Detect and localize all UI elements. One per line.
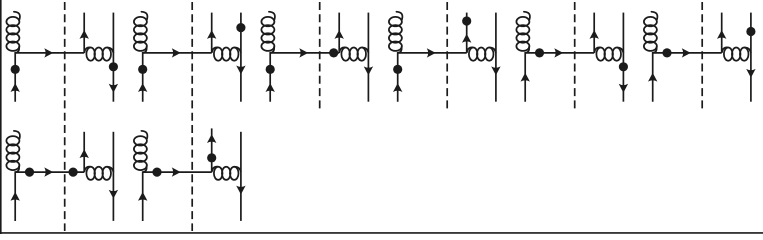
arrow on horizontal quark line D1 bbox=[44, 48, 53, 57]
up arrow on outgoing quark line D3 bbox=[335, 30, 344, 39]
wire: eikonal / Wilson line D1 bbox=[112, 13, 114, 102]
vertex dot on horizontal line after cut D7 bbox=[69, 168, 78, 177]
wire: eikonal / Wilson line D2 bbox=[240, 13, 242, 102]
down arrow on eikonal line D1 bbox=[109, 84, 118, 93]
vertex dot on horizontal quark line D6 bbox=[662, 48, 671, 57]
vertex dot on incoming quark line D1 bbox=[11, 65, 20, 74]
vertex dot on horizontal quark line D8 bbox=[152, 168, 161, 177]
up arrow on outgoing quark line D1 bbox=[80, 30, 89, 39]
gluon coil (left radiated gluon) D1 bbox=[14, 12, 20, 20]
gluon coil (left radiated gluon) D4 bbox=[396, 12, 402, 20]
arrow on horizontal quark line D2 bbox=[172, 48, 181, 57]
up arrow on incoming quark line D3 bbox=[266, 83, 275, 92]
wire: incoming quark line and horizontal quark propagator D1 bbox=[15, 53, 84, 102]
up arrow on outgoing quark line D8 bbox=[207, 134, 216, 143]
arrow on horizontal quark line D3 bbox=[299, 48, 308, 57]
wire: eikonal / Wilson line D8 bbox=[240, 132, 242, 221]
gluon coil (eikonal gluon) D3 bbox=[339, 47, 346, 53]
final-state cut (dashed) D4 bbox=[446, 2, 448, 110]
wire: outgoing quark line (left of cut) D8 bbox=[211, 128, 213, 172]
arrow on horizontal quark line D8 bbox=[172, 167, 181, 176]
figure frame: bottom border bbox=[0, 232, 763, 234]
wire: eikonal / Wilson line D6 bbox=[750, 13, 752, 102]
final-state cut (dashed) D1 bbox=[64, 2, 66, 231]
final-state cut (dashed) D5 bbox=[574, 2, 576, 110]
wire: outgoing quark line (left of cut) D7 bbox=[83, 132, 85, 172]
arrow on horizontal quark line D6 bbox=[682, 48, 691, 57]
wire: incoming quark line and horizontal quark propagator D5 bbox=[525, 53, 594, 102]
wire: incoming quark line and horizontal quark propagator D3 bbox=[270, 53, 339, 102]
up arrow on outgoing quark line D6 bbox=[717, 30, 726, 39]
wire: eikonal / Wilson line D4 bbox=[495, 13, 497, 102]
gluon coil (left radiated gluon) D6 bbox=[651, 12, 657, 20]
wire: eikonal / Wilson line D7 bbox=[112, 132, 114, 221]
gluon coil (eikonal gluon) D4 bbox=[467, 47, 474, 53]
vertex dot on outgoing quark line top D4 bbox=[462, 16, 471, 25]
down arrow on eikonal line D3 bbox=[364, 66, 373, 75]
gluon coil (left radiated gluon) D8 bbox=[141, 131, 147, 139]
arrow on horizontal quark line D5 bbox=[554, 48, 563, 57]
wire: outgoing quark line (left of cut) D6 bbox=[721, 13, 723, 53]
gluon coil (eikonal gluon) D8 bbox=[212, 167, 219, 173]
up arrow on incoming quark line D8 bbox=[138, 192, 147, 201]
up arrow on incoming quark line D4 bbox=[393, 83, 402, 92]
final-state cut (dashed) D6 bbox=[701, 2, 703, 110]
wire: outgoing quark line (left of cut) D2 bbox=[211, 13, 213, 53]
vertex dot on horizontal quark line D7 bbox=[25, 168, 34, 177]
vertex dot on eikonal line D2 bbox=[236, 23, 245, 32]
gluon coil (eikonal gluon) D2 bbox=[212, 47, 219, 53]
wire: eikonal / Wilson line D5 bbox=[622, 13, 624, 102]
down arrow on eikonal line D2 bbox=[236, 66, 245, 75]
gluon coil (eikonal gluon) D7 bbox=[84, 167, 91, 173]
up arrow on outgoing quark line D7 bbox=[80, 149, 89, 158]
vertex dot on incoming quark line D2 bbox=[138, 65, 147, 74]
up arrow on outgoing quark line D4 bbox=[462, 34, 471, 43]
vertex dot on eikonal line D5 bbox=[619, 62, 628, 71]
down arrow on eikonal line D8 bbox=[236, 186, 245, 195]
vertex dot on incoming quark line D3 bbox=[266, 65, 275, 74]
wire: incoming quark line and horizontal quark propagator D4 bbox=[398, 53, 467, 102]
arrow on horizontal quark line D7 bbox=[44, 167, 53, 176]
wire: outgoing quark line (left of cut) D1 bbox=[83, 13, 85, 53]
vertex dot on eikonal line D1 bbox=[109, 62, 118, 71]
wire: incoming quark line and horizontal quark propagator D6 bbox=[653, 53, 722, 102]
gluon coil (left radiated gluon) D5 bbox=[524, 12, 530, 20]
gluon coil (eikonal gluon) D5 bbox=[594, 47, 601, 53]
vertex dot on outgoing quark line D8 bbox=[207, 153, 216, 162]
up arrow on incoming quark line D2 bbox=[138, 83, 147, 92]
gluon coil (left radiated gluon) D3 bbox=[269, 12, 275, 20]
vertex dot at gluon junction D3 bbox=[329, 48, 338, 57]
vertex dot on eikonal line D6 bbox=[746, 27, 755, 36]
up arrow on incoming quark line D6 bbox=[648, 73, 657, 82]
up arrow on outgoing quark line D2 bbox=[207, 30, 216, 39]
vertex dot on incoming quark line D4 bbox=[393, 65, 402, 74]
final-state cut (dashed) D3 bbox=[319, 2, 321, 110]
down arrow on eikonal line D5 bbox=[619, 84, 628, 93]
up arrow on incoming quark line D5 bbox=[521, 73, 530, 82]
gluon coil (eikonal gluon) D1 bbox=[84, 47, 91, 53]
gluon coil (left radiated gluon) D2 bbox=[141, 12, 147, 20]
wire: outgoing quark line (left of cut) D5 bbox=[593, 13, 595, 53]
wire: outgoing quark line (left of cut) D3 bbox=[338, 13, 340, 53]
gluon coil (left radiated gluon) D7 bbox=[14, 131, 20, 139]
wire: incoming quark line and horizontal quark propagator D7 bbox=[15, 172, 84, 221]
wire: incoming quark line and horizontal quark propagator D2 bbox=[143, 53, 212, 102]
up arrow on incoming quark line D7 bbox=[11, 192, 20, 201]
arrow on horizontal quark line D4 bbox=[427, 48, 436, 57]
figure frame: left border bbox=[0, 0, 2, 234]
final-state cut (dashed) D2 bbox=[191, 2, 193, 231]
wire: incoming quark line and horizontal quark propagator D8 bbox=[143, 172, 212, 221]
vertex dot on horizontal quark line D5 bbox=[535, 48, 544, 57]
down arrow on eikonal line D6 bbox=[746, 69, 755, 78]
up arrow on outgoing quark line D5 bbox=[590, 30, 599, 39]
down arrow on eikonal line D4 bbox=[491, 66, 500, 75]
wire: outgoing quark line (left of cut) D4 bbox=[466, 13, 468, 53]
wire: eikonal / Wilson line D3 bbox=[367, 13, 369, 102]
down arrow on eikonal line D7 bbox=[109, 190, 118, 199]
gluon coil (eikonal gluon) D6 bbox=[722, 47, 729, 53]
up arrow on incoming quark line D1 bbox=[11, 83, 20, 92]
